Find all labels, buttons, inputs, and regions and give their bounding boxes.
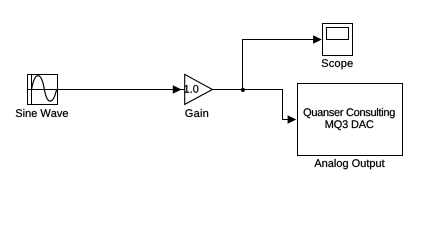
scope screen xyxy=(327,28,349,40)
arrowhead at gain input port xyxy=(173,85,182,94)
sine wave icon horizontal axis xyxy=(28,89,57,91)
label Gain xyxy=(185,109,208,117)
wire: stub into analog output xyxy=(282,119,289,121)
sine wave icon vertical axis xyxy=(31,75,33,104)
block text line 2: MQ3 DAC xyxy=(326,120,374,130)
analog output block body xyxy=(298,84,403,156)
wire: junction up to scope branch xyxy=(242,39,244,90)
gain value 1.0 xyxy=(184,85,198,93)
junction node dot xyxy=(241,88,245,92)
gain block triangle xyxy=(185,74,213,104)
label Scope xyxy=(322,59,353,69)
wire stub into gain xyxy=(181,89,185,91)
wire: junction right toward analog output xyxy=(243,89,283,91)
arrowhead at scope input port xyxy=(313,35,322,44)
label Analog Output xyxy=(314,159,384,169)
arrowhead at analog output input port xyxy=(288,115,297,124)
wire: sine wave output to gain input xyxy=(58,89,174,91)
block text line 1: Quanser Consulting xyxy=(304,108,395,118)
wire: gain output to junction xyxy=(212,89,243,91)
sine wave icon curve xyxy=(32,76,57,102)
label Sine Wave xyxy=(16,109,68,117)
wire: across to scope xyxy=(242,39,314,41)
sine wave source block body xyxy=(28,75,58,105)
wire: vertical drop xyxy=(282,89,284,120)
scope block body xyxy=(323,24,353,56)
